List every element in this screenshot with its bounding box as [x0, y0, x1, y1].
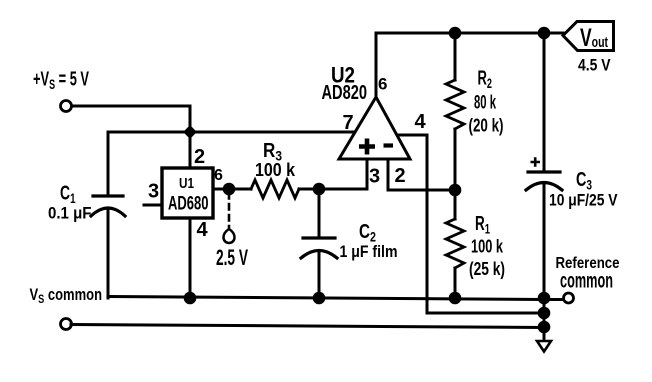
dashed wire 2.5V: [228, 193, 231, 228]
junction node R2/R1/pin2: [449, 184, 462, 197]
svg-text:6: 6: [214, 167, 223, 184]
junction node line3: [538, 321, 551, 334]
svg-text:100 k: 100 k: [255, 160, 296, 180]
ground: [537, 341, 551, 352]
wire junction stack: [543, 298, 546, 341]
wire top rail: [376, 32, 563, 35]
wire node to op-amp pin3: [319, 159, 367, 189]
op-amp minus sign: [384, 143, 394, 147]
capacitor C1: [93, 194, 123, 197]
capacitor C3: [528, 170, 560, 173]
wire +Vs to corner: [72, 106, 190, 132]
svg-text:4: 4: [197, 219, 209, 241]
svg-text:U1: U1: [179, 176, 194, 192]
wire op-amp pin4 to line2: [397, 135, 544, 313]
svg-text:(25 k): (25 k): [469, 259, 505, 279]
wire U1 pin2: [189, 132, 192, 168]
junction node bus U1 pin4: [184, 292, 197, 305]
junction node bus C2: [313, 292, 326, 305]
wire R1 top lead: [454, 190, 457, 219]
wire R2 bottom lead: [454, 129, 457, 190]
op-amp plus sign: [359, 139, 375, 155]
wire U1 pin4: [189, 218, 192, 298]
junction node U1 pin6: [223, 183, 236, 196]
wire y132 rail to op-amp pin7: [108, 131, 356, 134]
wire C3 top lead: [543, 33, 546, 172]
svg-text:2.5 V: 2.5 V: [216, 245, 248, 270]
op-amp U2: [339, 97, 410, 159]
junction node top rail R2: [449, 27, 462, 40]
svg-text:4.5 V: 4.5 V: [578, 56, 611, 75]
wire U1 pin6: [213, 188, 251, 191]
Vout tag: [563, 22, 614, 51]
svg-text:1 μF film: 1 μF film: [340, 242, 398, 261]
svg-text:3: 3: [369, 166, 380, 188]
svg-text:common: common: [560, 270, 613, 293]
resistor R3: [251, 180, 299, 198]
svg-text:+VS = 5 V: +VS = 5 V: [33, 69, 89, 93]
svg-text:100 k: 100 k: [471, 237, 504, 257]
svg-text:AD680: AD680: [168, 194, 209, 215]
svg-text:3: 3: [148, 181, 159, 203]
terminal Vs common: [61, 319, 72, 330]
junction node bus R1: [449, 292, 462, 305]
U1 box: [162, 168, 213, 218]
wire C2 bottom lead: [318, 251, 321, 298]
svg-text:4: 4: [415, 111, 427, 133]
wire R1 bottom lead: [454, 268, 457, 298]
capacitor C2: [303, 236, 335, 239]
svg-text:6: 6: [378, 75, 387, 94]
wire bus common: [108, 297, 563, 300]
wire op-amp pin2 feedback: [388, 159, 455, 190]
svg-text:7: 7: [343, 112, 354, 134]
wire op-amp pin6 output: [375, 33, 378, 97]
2.5V balloon: [224, 229, 235, 243]
wire C2 top lead: [318, 189, 321, 238]
svg-text:AD820: AD820: [322, 82, 368, 104]
junction node line2: [538, 307, 551, 320]
wire line3: [71, 325, 544, 328]
wire R3 to node: [299, 188, 319, 191]
junction node top rail C3: [538, 27, 551, 40]
junction node R3/C2/pin3: [313, 183, 326, 196]
junction node bus C3: [538, 292, 551, 305]
svg-text:10 μF/25 V: 10 μF/25 V: [549, 191, 618, 210]
terminal +Vs: [61, 101, 72, 112]
svg-text:2: 2: [194, 146, 205, 168]
C3 plus sign: [531, 157, 541, 166]
wire C1 bottom lead: [107, 209, 110, 298]
resistor R1: [446, 219, 464, 268]
resistor R2: [446, 80, 464, 129]
svg-text:2: 2: [395, 165, 406, 187]
svg-text:80 k: 80 k: [474, 93, 496, 114]
wire C3 bottom lead: [543, 183, 546, 298]
junction node +Vs/pin7: [183, 125, 197, 139]
svg-text:(20 k): (20 k): [469, 116, 504, 136]
wire R2 top lead: [454, 33, 457, 80]
wire U1 pin3 stub: [144, 204, 162, 207]
svg-text:0.1 μF: 0.1 μF: [48, 204, 92, 223]
wire C1 top lead: [107, 132, 110, 196]
terminal reference common: [564, 293, 574, 303]
